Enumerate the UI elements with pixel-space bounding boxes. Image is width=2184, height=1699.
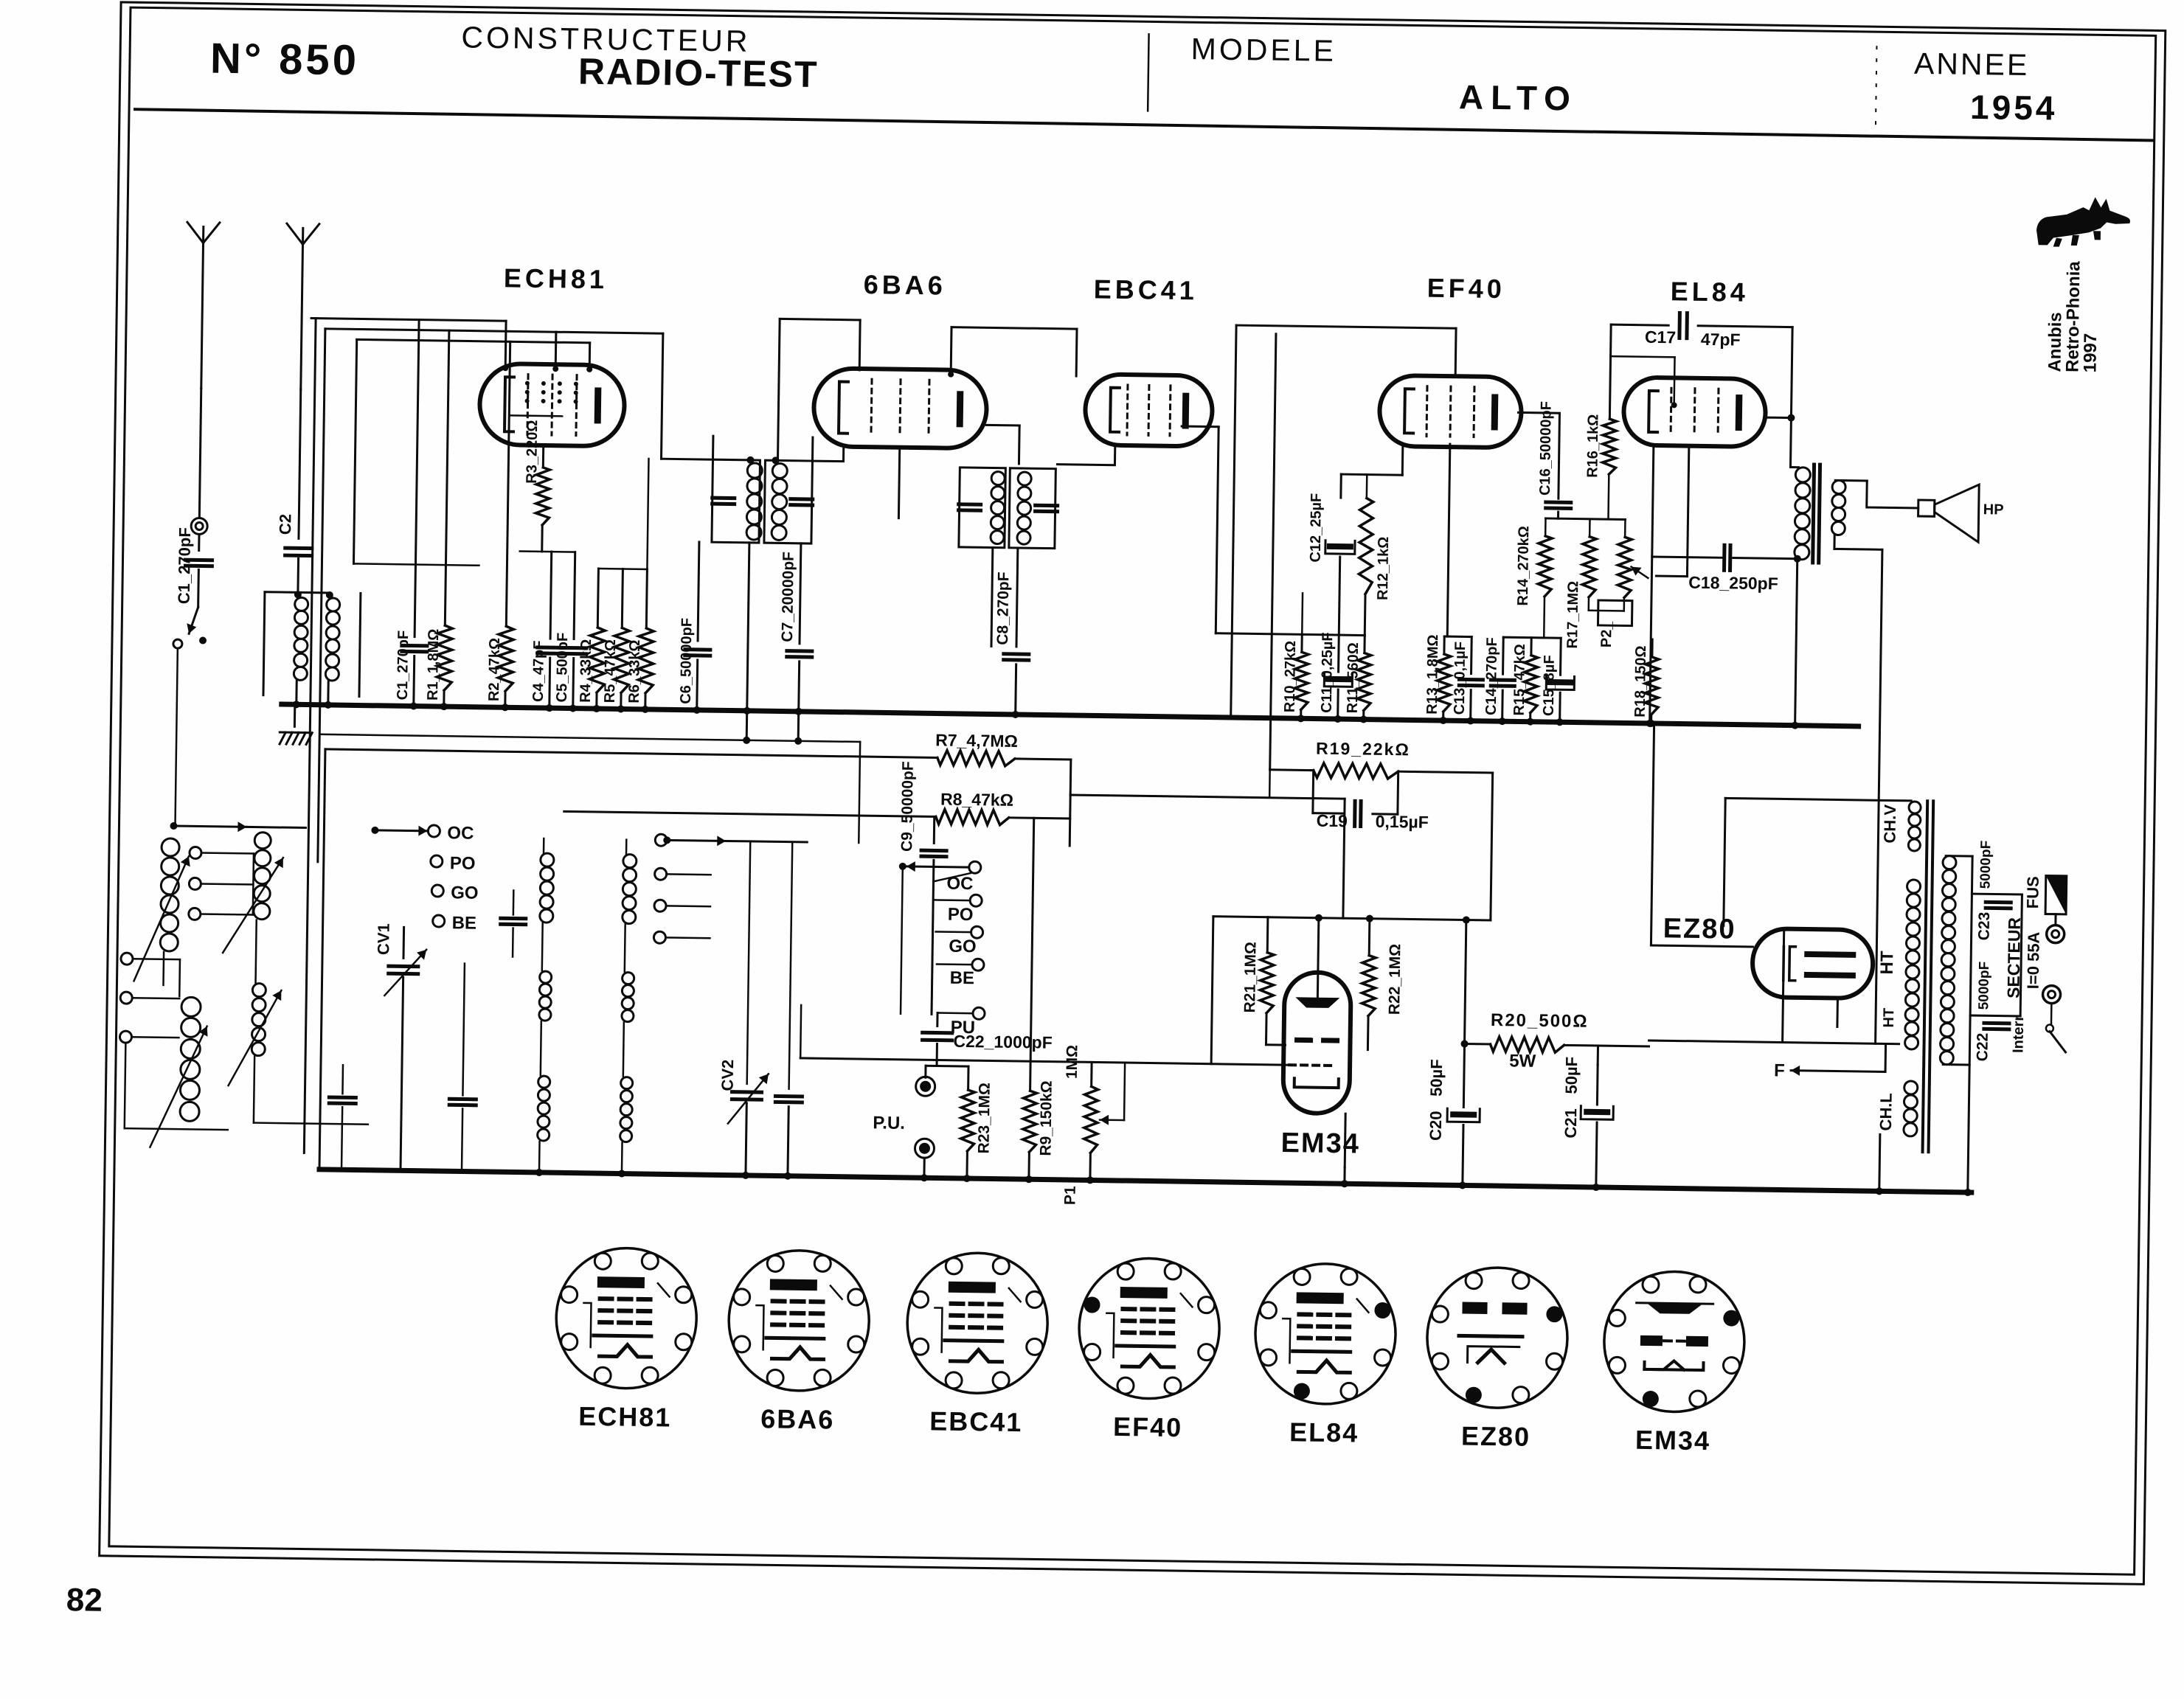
svg-text:GO: GO xyxy=(451,883,479,903)
svg-text:EF40: EF40 xyxy=(1427,273,1506,304)
svg-text:HT: HT xyxy=(1877,951,1897,975)
svg-text:R4_33kΩ: R4_33kΩ xyxy=(578,639,594,703)
svg-text:F: F xyxy=(1774,1060,1785,1080)
svg-text:R10_27kΩ: R10_27kΩ xyxy=(1282,641,1299,713)
svg-text:CV1: CV1 xyxy=(374,923,393,955)
svg-text:C11_0,25µF: C11_0,25µF xyxy=(1319,632,1337,713)
svg-text:R11_560Ω: R11_560Ω xyxy=(1345,642,1362,713)
svg-text:C8_270pF: C8_270pF xyxy=(994,571,1012,645)
svg-text:R20_500Ω: R20_500Ω xyxy=(1491,1010,1589,1032)
svg-text:EBC41: EBC41 xyxy=(1093,274,1198,305)
svg-text:P.U.: P.U. xyxy=(873,1113,905,1133)
svg-text:R15_47kΩ: R15_47kΩ xyxy=(1511,644,1528,716)
svg-text:OC: OC xyxy=(447,823,474,844)
svg-text:P1: P1 xyxy=(1061,1186,1078,1205)
svg-text:EL84: EL84 xyxy=(1671,276,1750,307)
svg-text:C21: C21 xyxy=(1561,1108,1581,1139)
svg-text:R12_1kΩ: R12_1kΩ xyxy=(1375,537,1392,600)
svg-text:CH.L: CH.L xyxy=(1876,1093,1896,1131)
svg-text:C22: C22 xyxy=(1974,1033,1991,1062)
svg-text:C16_50000pF: C16_50000pF xyxy=(1537,401,1555,496)
svg-text:C15_8µF: C15_8µF xyxy=(1541,655,1558,716)
svg-text:6BA6: 6BA6 xyxy=(864,269,947,301)
svg-text:5W: 5W xyxy=(1509,1051,1536,1071)
svg-text:ALTO: ALTO xyxy=(1459,77,1578,117)
svg-text:ANNEE: ANNEE xyxy=(1914,46,2030,82)
svg-text:BE: BE xyxy=(950,968,975,988)
svg-text:R14_270kΩ: R14_270kΩ xyxy=(1515,526,1533,606)
svg-text:R5_47kΩ: R5_47kΩ xyxy=(602,639,619,703)
svg-text:R3_220Ω: R3_220Ω xyxy=(524,420,541,484)
svg-text:1997: 1997 xyxy=(2080,333,2101,373)
svg-text:R23_1MΩ: R23_1MΩ xyxy=(975,1083,993,1154)
svg-text:C13_0,1µF: C13_0,1µF xyxy=(1452,642,1469,715)
svg-text:C7_20000pF: C7_20000pF xyxy=(779,552,797,642)
svg-text:N° 850: N° 850 xyxy=(210,35,360,85)
svg-text:C20: C20 xyxy=(1426,1111,1446,1141)
svg-text:C14_270pF: C14_270pF xyxy=(1483,637,1500,715)
svg-text:C1_270pF: C1_270pF xyxy=(395,630,412,701)
svg-text:P2_: P2_ xyxy=(1598,621,1615,648)
svg-text:R18_150Ω: R18_150Ω xyxy=(1632,645,1649,718)
svg-text:5000pF: 5000pF xyxy=(1976,962,1992,1010)
svg-text:I=0 55A: I=0 55A xyxy=(2024,931,2043,989)
svg-text:R2_47kΩ: R2_47kΩ xyxy=(486,638,503,701)
svg-text:HP: HP xyxy=(1983,501,2004,518)
svg-text:0,15µF: 0,15µF xyxy=(1376,812,1429,832)
svg-text:C5_500pF: C5_500pF xyxy=(554,633,571,703)
svg-text:EF40: EF40 xyxy=(1113,1411,1183,1442)
svg-text:RADIO-TEST: RADIO-TEST xyxy=(578,51,819,96)
svg-text:C23: C23 xyxy=(1976,912,1994,941)
svg-text:R1_1,8MΩ: R1_1,8MΩ xyxy=(425,629,442,701)
svg-text:R17_1MΩ: R17_1MΩ xyxy=(1564,581,1581,649)
svg-text:C6_50000pF: C6_50000pF xyxy=(678,618,696,704)
svg-text:EM34: EM34 xyxy=(1280,1128,1360,1159)
svg-text:82: 82 xyxy=(66,1582,103,1619)
svg-text:C17: C17 xyxy=(1645,327,1677,347)
svg-text:CH.V: CH.V xyxy=(1880,804,1899,843)
svg-text:R21_1MΩ: R21_1MΩ xyxy=(1241,942,1259,1013)
svg-text:R22_1MΩ: R22_1MΩ xyxy=(1386,944,1404,1015)
svg-text:50µF: 50µF xyxy=(1562,1057,1581,1094)
svg-text:50µF: 50µF xyxy=(1427,1059,1446,1097)
svg-text:1954: 1954 xyxy=(1970,88,2058,128)
svg-text:EM34: EM34 xyxy=(1635,1425,1711,1456)
svg-text:R16_1kΩ: R16_1kΩ xyxy=(1584,414,1601,478)
svg-text:R7_4,7MΩ: R7_4,7MΩ xyxy=(935,730,1018,751)
svg-text:EL84: EL84 xyxy=(1289,1417,1359,1448)
svg-text:BE: BE xyxy=(451,913,476,933)
svg-text:C2: C2 xyxy=(276,514,294,535)
svg-text:R6_33kΩ: R6_33kΩ xyxy=(626,639,643,703)
svg-text:C19: C19 xyxy=(1317,811,1348,831)
svg-text:HT: HT xyxy=(1881,1008,1897,1028)
svg-text:EBC41: EBC41 xyxy=(929,1406,1023,1437)
svg-text:R9_150kΩ: R9_150kΩ xyxy=(1037,1080,1055,1156)
svg-text:EZ80: EZ80 xyxy=(1663,913,1736,945)
svg-text:PO: PO xyxy=(450,853,476,873)
svg-text:6BA6: 6BA6 xyxy=(760,1403,835,1434)
svg-text:C9_50000pF: C9_50000pF xyxy=(898,761,917,852)
svg-text:R13_1,8MΩ: R13_1,8MΩ xyxy=(1424,634,1442,715)
svg-text:PO: PO xyxy=(948,905,974,925)
svg-text:Interr: Interr xyxy=(2010,1015,2027,1053)
svg-text:CV2: CV2 xyxy=(718,1060,738,1091)
svg-text:R8_47kΩ: R8_47kΩ xyxy=(940,790,1013,810)
svg-text:EZ80: EZ80 xyxy=(1461,1420,1531,1451)
svg-text:47pF: 47pF xyxy=(1701,330,1741,350)
svg-text:R19_22kΩ: R19_22kΩ xyxy=(1316,739,1410,760)
svg-text:FUS: FUS xyxy=(2023,876,2042,908)
svg-text:C12_25µF: C12_25µF xyxy=(1308,493,1325,563)
svg-text:GO: GO xyxy=(949,937,977,957)
svg-text:MODELE: MODELE xyxy=(1190,32,1337,68)
svg-text:ECH81: ECH81 xyxy=(578,1401,672,1433)
svg-text:ECH81: ECH81 xyxy=(504,263,609,294)
svg-text:C22_1000pF: C22_1000pF xyxy=(953,1032,1053,1052)
svg-text:OC: OC xyxy=(946,874,973,894)
svg-text:C4_47pF: C4_47pF xyxy=(530,640,547,702)
svg-text:5000pF: 5000pF xyxy=(1978,841,1994,889)
svg-text:C18_250pF: C18_250pF xyxy=(1688,573,1778,594)
